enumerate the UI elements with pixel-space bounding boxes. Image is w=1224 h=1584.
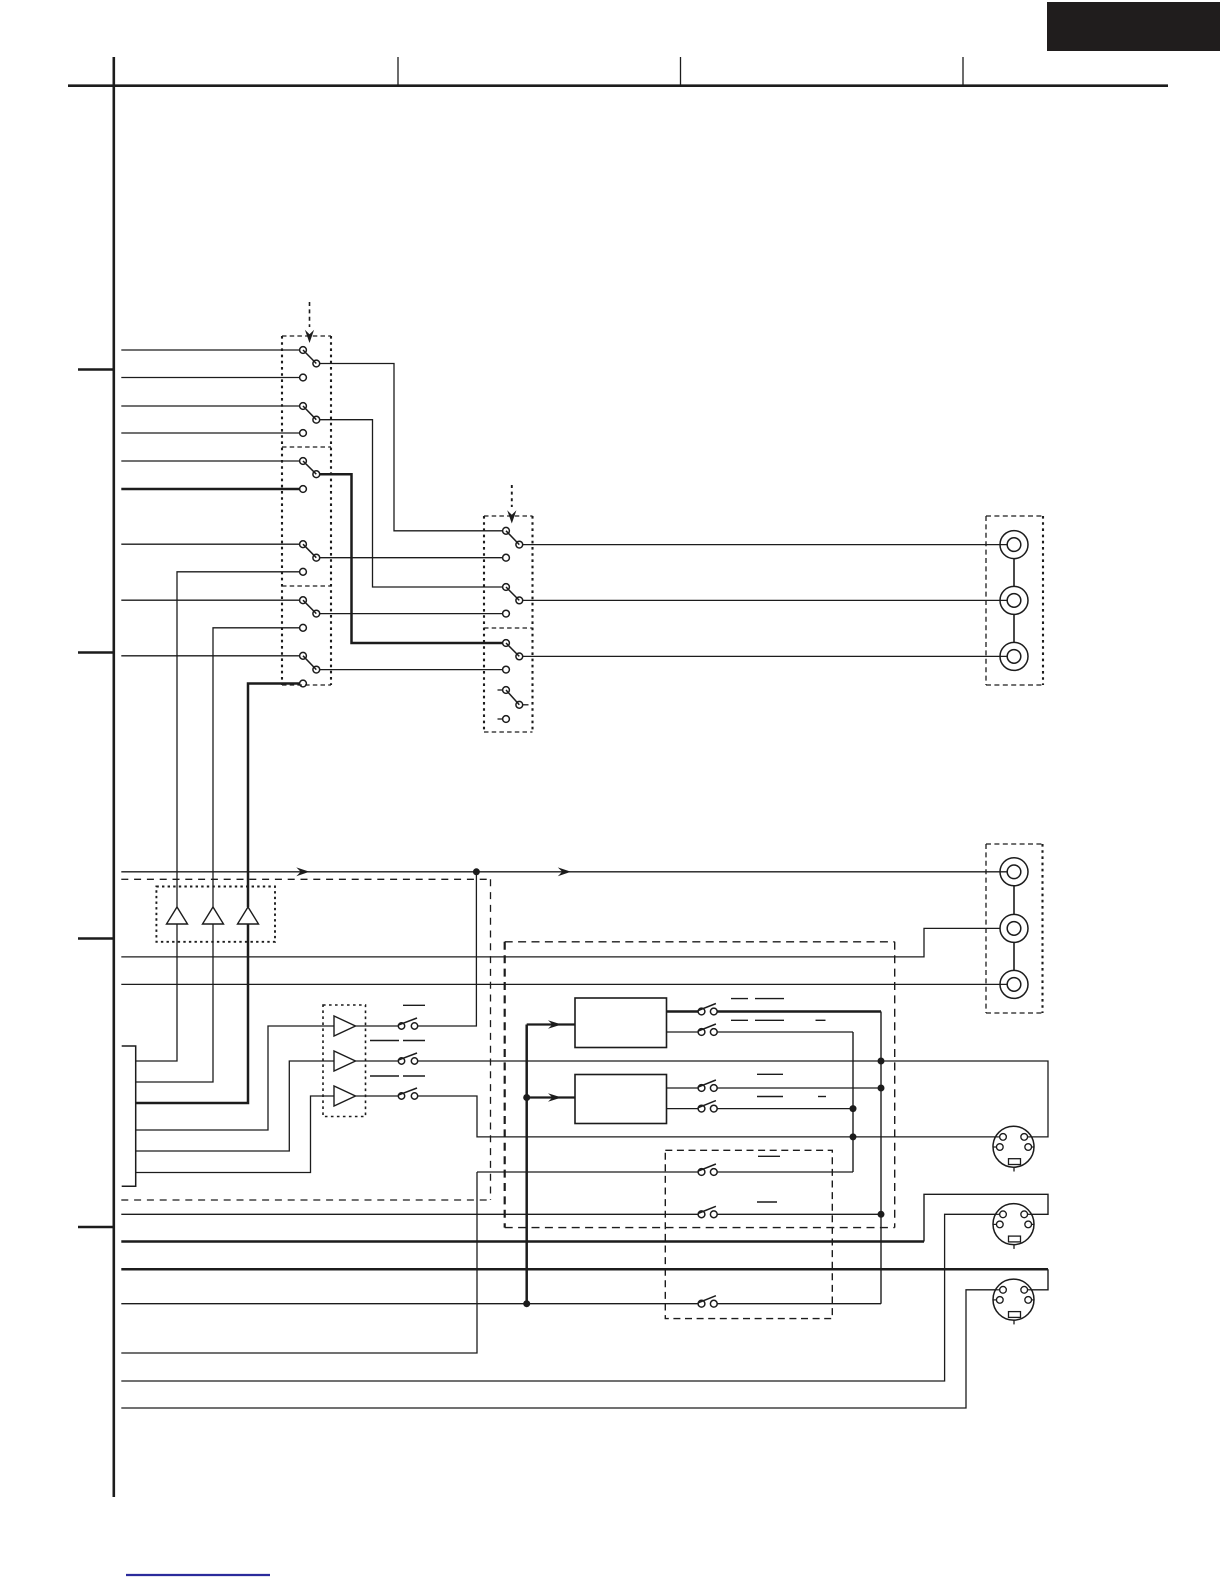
border top rule [68,84,1168,87]
wire K3 out to net V [717,1087,878,1089]
border tick top 3 [962,57,964,85]
wire composite out1 (bold) to DIN2 right [121,1240,924,1243]
converter U1 [575,998,667,1048]
wire U1 out2 [667,1031,699,1033]
wire M1 out to monitor junction [418,872,477,1026]
WIRES_TOP [121,350,299,907]
contact marks M1/M2 [370,1040,425,1042]
wire G2 input [121,1213,698,1215]
contact marks M2/M3 [370,1075,425,1077]
contact S1-3b [300,486,307,493]
wire header P4 to buffer B1 [136,1026,334,1130]
arrowhead 1 on monitor wire [296,867,309,876]
switch S2-2 [503,584,523,604]
wire header P5 to buffer B2 [136,1061,334,1151]
buffer box (dotted) [323,1005,366,1117]
wire input MD L [121,377,299,379]
wire B2 out to switch [356,1060,399,1062]
junction dot net V / G2 wire [878,1211,885,1218]
contact S1-6b [300,680,307,687]
wire A3 input from header P6 (bold) [136,924,248,1103]
border tick top 2 [680,57,682,85]
switch S1-6 [300,652,320,673]
mute switch M3 [398,1088,418,1099]
switch K1 [698,1004,717,1015]
switch S1-4 [300,541,320,561]
contact S1-2b [300,430,307,437]
buffer B3 [334,1086,356,1106]
junction dot net V / B2 wire [878,1058,885,1065]
contact S2-2b [503,610,510,617]
border tick left 3 [78,937,114,939]
contact S1-4b [300,568,307,575]
wire J2-J3 link [1013,614,1015,642]
wire monitor video out to RCA J4 (arrowed) [121,871,1007,873]
RCA jack group 2 box [986,844,1043,1013]
junction dot feed/U2 [523,1094,530,1101]
contact mark M1 [403,1004,425,1006]
footer link underline [126,1574,270,1576]
wire input MD R [121,432,299,434]
switch G3 [698,1296,717,1307]
wire M2 out to S-video DIN1 right [418,1061,1048,1137]
S-video DIN1 [993,1126,1034,1171]
contact S1-5b [300,624,307,631]
wire G1 from net X to net W [477,1171,698,1173]
video board dashed box A [121,879,490,1200]
wire feed to U2 (arrowed) [527,1093,575,1102]
RCA jack J4 [1000,858,1028,886]
border left rule [113,57,116,1497]
amplifier A2 [203,907,224,924]
switch S2-1 [503,527,523,548]
switch S1-5 [300,597,320,617]
wire S2-3 out to RCA J3 [523,655,1007,657]
wire G1 out [717,1171,853,1173]
wire to RCA J5 [121,928,1000,957]
selector bank S2 box [484,516,533,732]
wire K4 out to net W [717,1108,850,1110]
wire J1-J2 link [1013,559,1015,587]
wire header P6 to buffer B3 [136,1096,334,1173]
wire DIN3 right feed riser [1032,1269,1049,1290]
mute switch M1 [398,1018,418,1029]
selector bank S1 box [282,336,331,685]
junction dot feed/G3 [523,1300,530,1307]
wire feed to U1 (arrowed) [527,1020,575,1029]
S-video DIN2 [993,1204,1034,1249]
amplifier A3 [238,907,259,924]
RCA jack group 1 box [986,516,1043,685]
contact mark G1 [758,1155,780,1157]
converter U2 [575,1075,667,1124]
wire S1-2 out to S2-2 top [320,420,503,587]
junction dot net W / DIN1 left wire [850,1133,857,1140]
wire A1 input from header P4 [136,924,177,1061]
S-video DIN3 [993,1279,1034,1324]
contact marks K2 [731,1019,826,1021]
amplifier box (dotted) [156,887,275,942]
RCA jack J1 [1000,531,1028,559]
net W vertical [852,1032,854,1172]
RCA jack J3 [1000,642,1028,670]
wire input TAPE1 R [121,405,299,407]
wire U1 out1 (bold) [667,1010,699,1013]
contact marks K4 [757,1096,826,1098]
contact S2-3b [503,666,510,673]
wire input main L (bold) [121,488,299,491]
wire A2 input from header P5 [136,924,213,1082]
wire input TAPE1 L [121,349,299,351]
wire riser from buffer A3 to bank1 row12 (bold) [248,684,300,908]
wire to RCA J6 [121,983,1007,985]
selector arrow S2 [507,485,516,524]
switch G2 [698,1206,717,1217]
S-video board dashed box B [505,942,895,1228]
border tick left 4 [78,1226,114,1228]
contact S2-1b [503,554,510,561]
selector arrow S1 [305,302,314,343]
feed wire from net Y up to U1/U2 (bold) [525,1025,528,1304]
switch S1-1 [300,347,320,367]
wire G3 out to net V [717,1303,881,1305]
wire DIN2 left to margin [121,1214,996,1381]
buffer B2 [334,1051,356,1071]
wire S2-1 out to RCA J1 [523,544,1007,546]
amplifier A1 [167,907,188,924]
wire U2 out2 [667,1108,699,1110]
wire input V2 [121,599,299,601]
wire G2 out to net V [717,1213,878,1215]
wire S1-1 out to S2-1 top [320,364,503,531]
switch S1-3 [300,458,320,478]
junction dot monitor/buffer B1 [473,868,480,875]
wire S2-2 out to RCA J2 [523,599,1007,601]
RCA jack J6 [1000,970,1028,998]
mute switch M2 [398,1053,418,1064]
net V vertical [880,1012,882,1304]
border tick left 2 [78,651,114,653]
switch S1-2 [300,403,320,424]
contact mark K3 [757,1073,783,1075]
wire input video L [121,460,299,462]
contact S1-1b [300,374,307,381]
wire B1 out to switch [356,1025,399,1027]
switch K4 [698,1101,717,1112]
switch K3 [698,1080,717,1091]
wire riser from buffer A2 to bank1 row10 [213,628,300,907]
switch G1 [698,1164,717,1175]
wire input V1 [121,543,299,545]
net X vertical [121,1172,477,1353]
wire B3 out to switch [356,1095,399,1097]
wire riser from buffer A1 to bank1 row8 [177,572,300,907]
wire M3 out to S-video DIN1 left [418,1096,996,1137]
RCA jack J2 [1000,586,1028,614]
wire DIN2 right feed riser [924,1194,1048,1241]
switch S2-3 [503,640,523,660]
wire U2 out1 [667,1087,699,1089]
wire K1 out to net V (bold) [717,1010,881,1013]
buffer B1 [334,1016,356,1036]
wire composite out2 (bold) to DIN3 right [121,1268,1048,1271]
mode switch dashed box C [665,1150,832,1318]
wire S1-4 out to S2-1 bottom [320,557,503,559]
wire S1-3 out to S2-3 top (bold) [320,474,503,643]
junction dot K3/net V [878,1085,885,1092]
wire J4-J5 link [1013,886,1015,915]
contact mark G2 [757,1201,777,1203]
header connector CN1 [122,1046,136,1186]
arrowhead 2 on monitor wire [558,867,571,876]
title block (redacted label) [1047,2,1220,51]
wire input V3 [121,655,299,657]
junction dot K4/net W [850,1105,857,1112]
wire G3 input [121,1303,698,1305]
wire DIN3 left to margin [121,1290,996,1408]
contact marks K1 [731,998,784,1000]
wire K2 out to net W [717,1031,853,1033]
wire S1-6 out to S2-3 bottom [320,669,503,671]
RCA jack J5 [1000,914,1028,942]
wire J5-J6 link [1013,942,1015,970]
switch S2-4 (spare) [498,687,529,723]
switch K2 [698,1024,717,1035]
border tick left 1 [78,368,114,370]
wire S1-5 out to S2-2 bottom [320,613,503,615]
border tick top 1 [397,57,399,85]
